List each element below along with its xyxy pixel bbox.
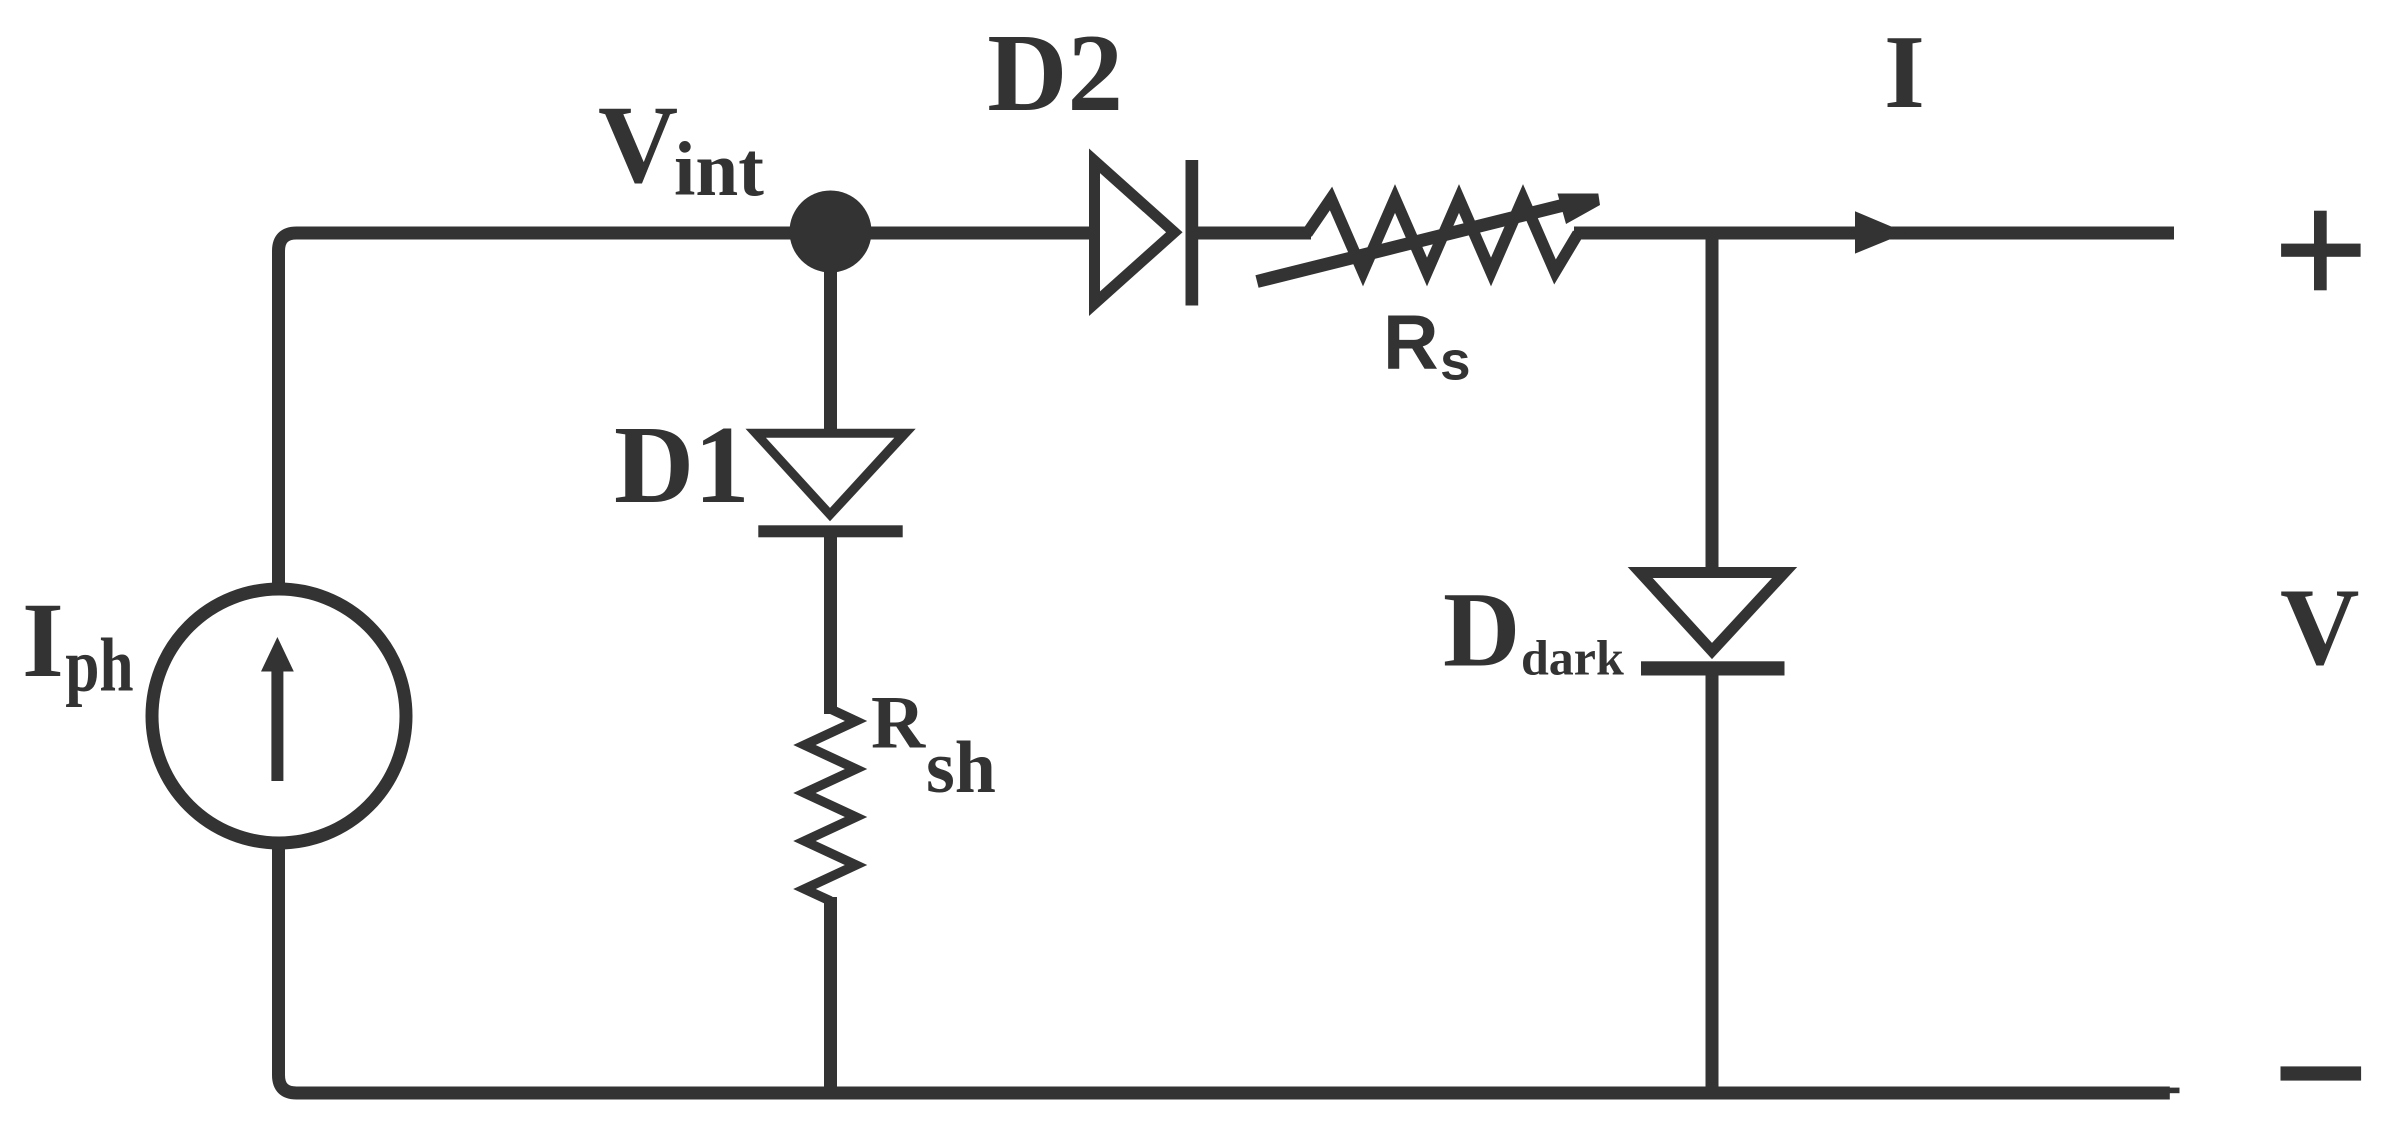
- diode D2: [1089, 149, 1198, 317]
- svg-text:dark: dark: [1521, 630, 1624, 686]
- Rs variable arrow shaft: [1257, 204, 1570, 282]
- current source I_ph: [152, 589, 406, 843]
- wire Rsh to bottom rail: [824, 897, 837, 1093]
- current source arrow: [261, 637, 294, 781]
- diode D1: [746, 429, 916, 538]
- output current arrow head: [1855, 211, 1906, 253]
- wire D1 to Rsh: [824, 531, 837, 714]
- svg-text:D: D: [1443, 572, 1520, 690]
- wire Rs to output: [1574, 227, 2174, 240]
- svg-text:I: I: [1884, 13, 1925, 130]
- svg-text:int: int: [674, 126, 764, 212]
- svg-text:V: V: [598, 84, 678, 207]
- diode Ddark: [1628, 567, 1798, 676]
- svg-text:D1: D1: [614, 404, 750, 527]
- svg-text:R: R: [871, 682, 926, 765]
- wire node to D2: [831, 227, 1096, 240]
- svg-text:ph: ph: [65, 624, 133, 708]
- svg-text:sh: sh: [926, 727, 996, 809]
- resistor Rs zigzag (variable): [1307, 199, 1578, 273]
- plus terminal: [2281, 211, 2361, 291]
- svg-text:V: V: [2280, 566, 2359, 688]
- wire D2 to Rs: [1192, 227, 1311, 240]
- wire bottom rail: [279, 849, 2170, 1094]
- wire right branch upper (to Ddark): [1706, 233, 1719, 567]
- wire Ddark to bottom rail: [1706, 668, 1719, 1093]
- wire stub at bottom-right end: [2169, 1088, 2180, 1094]
- node V_int: [790, 191, 872, 273]
- svg-text:R: R: [1383, 300, 1439, 386]
- wire top rail: [279, 233, 1096, 584]
- svg-text:I: I: [22, 581, 64, 700]
- svg-text:s: s: [1440, 330, 1471, 392]
- minus terminal: [2281, 1066, 2362, 1080]
- Rs variable arrow head: [1558, 194, 1601, 225]
- svg-text:D2: D2: [987, 12, 1123, 135]
- wire D1 branch upper: [824, 233, 837, 433]
- resistor Rsh zigzag: [805, 709, 857, 901]
